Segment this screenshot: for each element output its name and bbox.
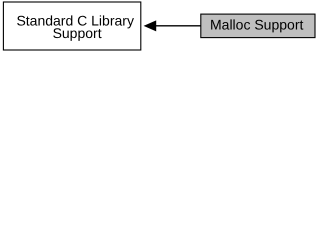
svg-text:Malloc Support: Malloc Support [210,16,303,32]
svg-text:Support: Support [53,25,102,41]
